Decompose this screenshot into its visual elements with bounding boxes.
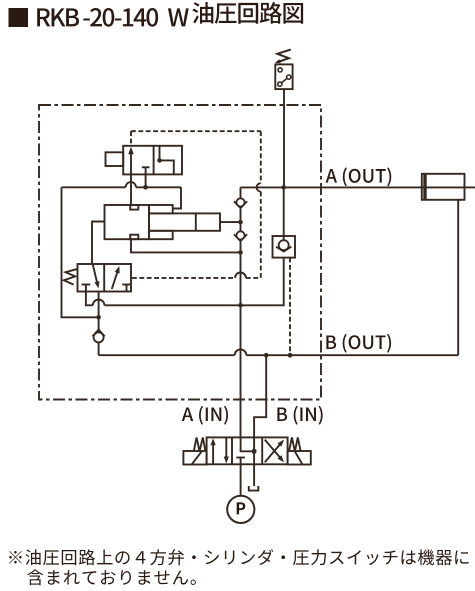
wire: A column x=240.5: [240, 187, 242, 437]
check valve CV-A2 ball: [236, 231, 244, 239]
line hop: rail over SOL output: [126, 182, 136, 187]
node: pilot dashed junction: [288, 353, 293, 358]
CV3 seat: [276, 247, 291, 252]
PV left cell arrow: [93, 265, 98, 286]
DV right cell cross arrows: [265, 442, 282, 462]
pilot dashed line: right vertical: [260, 131, 262, 183]
check valve CV1 ball: [94, 332, 104, 342]
wire: cylinder bottom to B line: [457, 200, 459, 355]
wire B(IN): down-left-down to 4way valve: [254, 355, 266, 437]
SOL left cell blocked port T: [142, 166, 150, 168]
pilot dashed: SOL top stub: [130, 131, 132, 146]
main relief valve: body square: [105, 205, 150, 239]
node in SOL right cell: [157, 158, 162, 163]
label A (OUT): [326, 167, 392, 186]
PV right cell arrow: [112, 268, 119, 289]
wire: A line down to boxed check: [283, 187, 285, 240]
pilot dashed line: top run: [131, 130, 261, 132]
title text 油圧回路図: [192, 2, 303, 24]
PV left cell blocked T: [82, 284, 91, 286]
main valve top port notch: [130, 205, 138, 210]
DV cell dividers: [231, 437, 233, 464]
node on y=305 run: [238, 303, 243, 308]
check valve CV1 seat: [92, 330, 104, 337]
pump circle: [227, 496, 254, 523]
wire: DV tank port down: [253, 464, 255, 486]
directional valve DV body: [207, 437, 288, 464]
wire: main valve left stub: [92, 222, 105, 265]
pressure switch contact arm: [281, 78, 287, 83]
wire A(OUT): corner at x=240.5 to right edge: [241, 186, 475, 188]
title black square: [9, 8, 29, 27]
wire: PV output port down: [98, 292, 100, 318]
SOL right cell path: [160, 146, 174, 175]
solenoid vent valve SOL body: [123, 146, 182, 175]
DV right solenoid box: [288, 451, 311, 465]
DV right solenoid slash: [295, 451, 303, 464]
footnote line 2: [27, 569, 196, 585]
main valve bottom port notch: [130, 235, 138, 240]
check valve CV-A2 seat: [234, 234, 247, 241]
main valve spool divider: [195, 213, 197, 230]
pilot relief valve PV body: [78, 264, 132, 292]
node: B(IN) junction: [264, 353, 269, 358]
PV spring: [64, 269, 78, 285]
label A (IN): [182, 406, 228, 425]
wire: P port to pump: [240, 464, 242, 496]
main valve top step: [149, 205, 173, 213]
DV left solenoid slash: [192, 451, 202, 464]
pressure switch PS body: [275, 64, 292, 89]
machine boundary box (chain line): [39, 105, 321, 400]
PV right cell blocked T: [122, 284, 131, 286]
wire: junction down to check valve: [98, 317, 100, 332]
DV right spring: [289, 438, 301, 452]
check valve CV-A1 ball: [236, 198, 244, 206]
main valve bottom step: [149, 231, 173, 239]
node: stem junction: [238, 220, 243, 225]
pressure switch PS zigzag arrow: [277, 50, 291, 63]
SOL left cell flow arrow (up): [130, 150, 132, 175]
hop: drain run over PV output wire: [93, 300, 105, 306]
label B (OUT): [326, 334, 391, 353]
node: SOL T-port junction: [143, 185, 148, 190]
wire B(OUT) rail: [99, 354, 235, 356]
node: pilot dashed junction (redraw): [288, 353, 293, 358]
node: PV output junction: [96, 315, 101, 320]
PV cell divider: [103, 264, 105, 292]
pilot dashed line: bottom run to pilot valve: [132, 277, 235, 279]
wire: PV drain port down/right: [86, 292, 93, 306]
wire: SOL output down to main valve: [130, 174, 132, 205]
tank symbol: [249, 486, 258, 491]
DV left cell arrows: [212, 441, 214, 465]
title text RKB -20-140 W: [37, 8, 158, 27]
check valve CV-A1 seat: [234, 201, 247, 208]
boxed check valve CV3 box: [273, 236, 296, 258]
wire: spool stem to check column: [220, 221, 241, 223]
cylinder piston: [423, 174, 426, 200]
DV left spring: [194, 438, 206, 452]
wire: CV1 to B line: [98, 342, 100, 355]
SOL solenoid box: [106, 152, 124, 166]
DV center cell blocked P port T: [240, 458, 242, 465]
wire: main valve bottom drop: [131, 239, 241, 252]
wire: rail corner down to main valve top step: [173, 187, 181, 208]
DV left solenoid box: [183, 451, 206, 465]
CV3 ball: [279, 240, 289, 250]
SOL cell divider: [153, 146, 155, 175]
wire: left rail down to pilot circuit: [62, 187, 99, 317]
main valve spool: [149, 213, 220, 230]
hop: B rail over A drop wire: [235, 349, 247, 355]
hop: dashed run over vertical wire: [235, 273, 246, 278]
wire: SOL T-port to rail: [145, 174, 147, 187]
pressure switch contact circles: [278, 68, 282, 72]
hop: dashed vertical over A line: [257, 183, 261, 191]
label B (IN): [277, 406, 322, 425]
node: bottom drop junction: [238, 250, 243, 255]
DV center cell through line: [253, 437, 255, 464]
cylinder body: [422, 174, 465, 200]
wire: pressure switch to A line: [283, 89, 285, 187]
node inside DV: [252, 449, 257, 454]
pilot dashed: CV3 to B rail: [289, 258, 291, 356]
pump letter P: [237, 502, 246, 514]
wire: left A-pressure rail y=187.3: [62, 186, 126, 188]
node: pressure switch junction on A line: [281, 185, 286, 190]
footnote line 1: [9, 549, 468, 565]
DV center cell: A to tank path: [241, 437, 255, 451]
